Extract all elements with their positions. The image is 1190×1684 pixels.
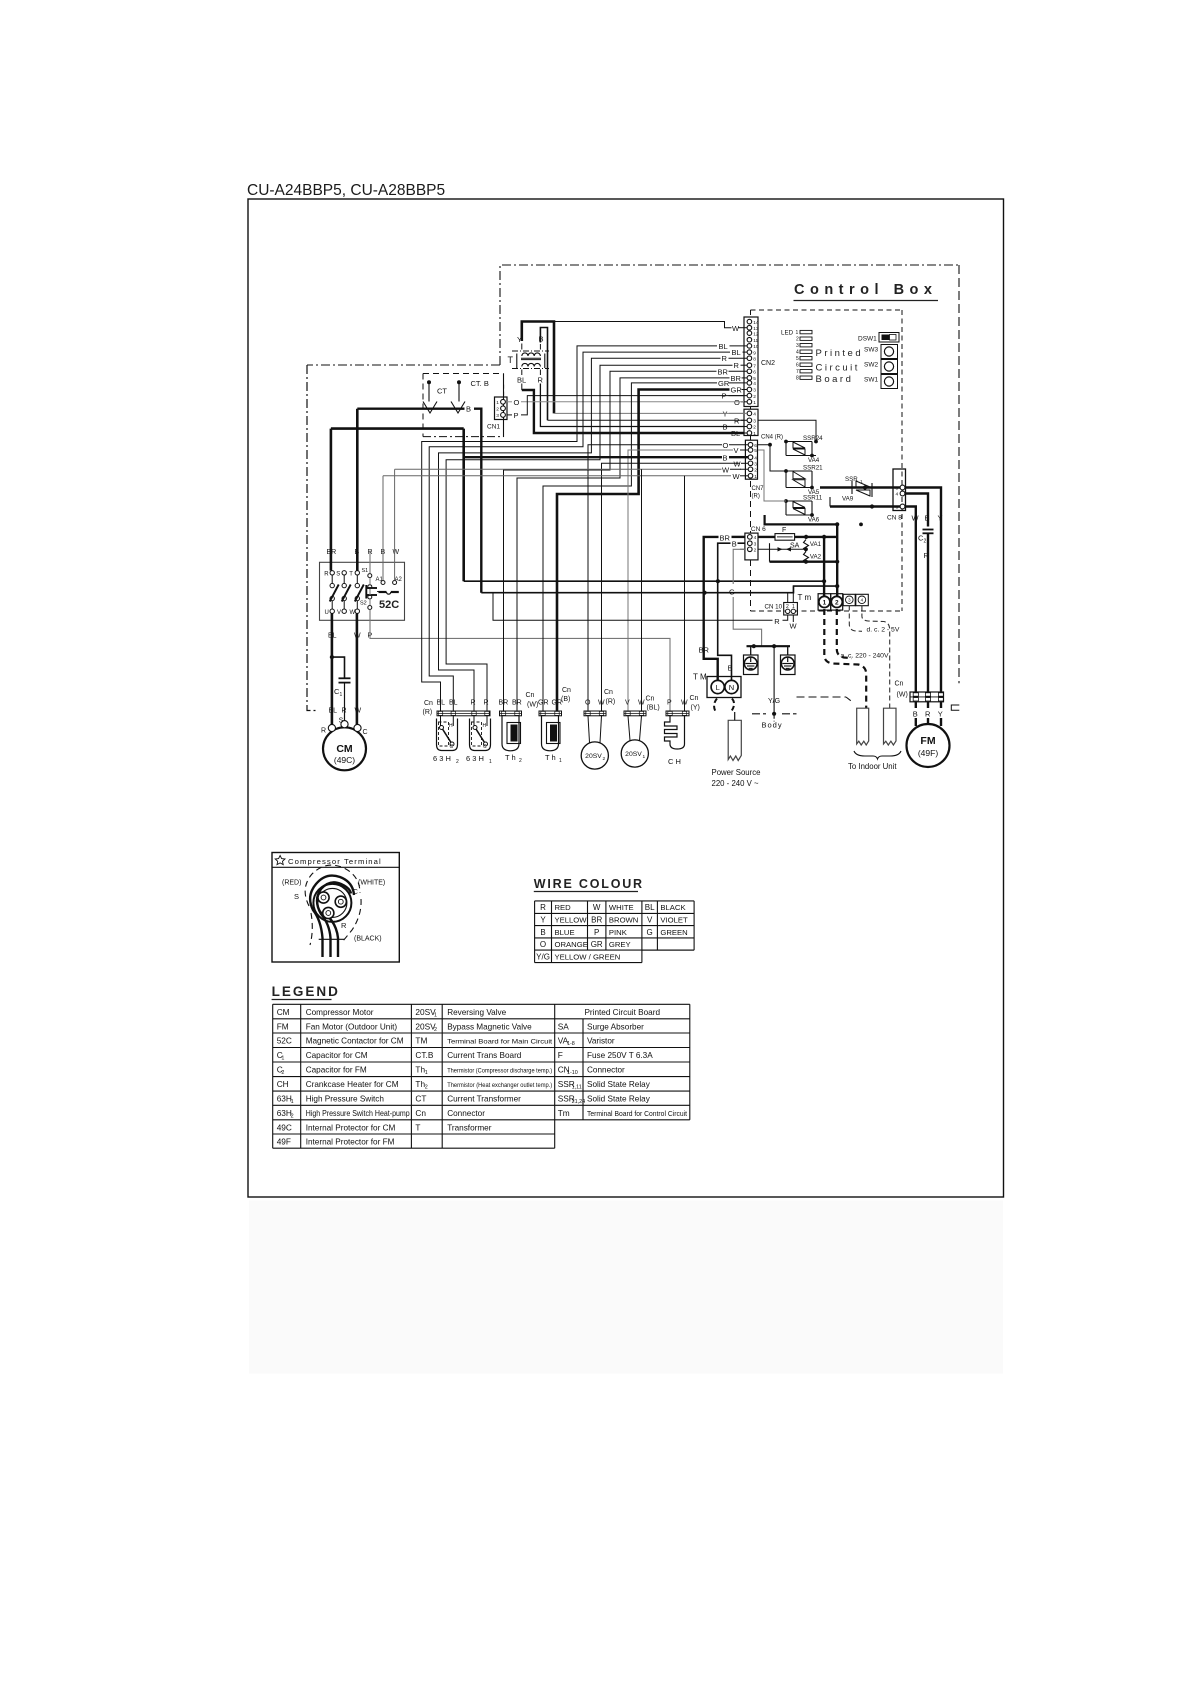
svg-text:4: 4 [754,455,757,461]
solid state relay SSR11 [786,500,812,502]
svg-text:R: R [342,708,347,715]
wire G from CN6 pin2 to earth bus [733,549,745,584]
svg-text:GREEN: GREEN [660,928,687,937]
svg-text:CT: CT [437,387,447,396]
svg-text:CU-A24BBP5, CU-A28BBP5: CU-A24BBP5, CU-A28BBP5 [247,182,445,199]
svg-text:BL: BL [437,700,446,707]
svg-text:F: F [558,1050,563,1060]
svg-text:(49F): (49F) [918,748,938,758]
wire L1 to Tm1 junction [464,580,824,582]
wire BR bold horizontal [331,427,464,430]
svg-text:10: 10 [753,344,759,350]
svg-text:Thermistor (Heat exchanger out: Thermistor (Heat exchanger outlet temp.) [447,1082,552,1089]
svg-text:L: L [716,683,720,692]
svg-text:VA4: VA4 [808,457,820,464]
wire B bold into 52C pole T [356,409,359,571]
wires into CN10 from power lines [787,593,789,603]
connector bar Th2 [500,711,522,716]
svg-text:Y: Y [938,514,943,523]
svg-text:BL: BL [449,700,458,707]
svg-text:(W): (W) [897,692,908,699]
svg-text:(R): (R) [606,699,616,706]
earth ground symbol 1 [750,646,752,655]
svg-text:(RED): (RED) [282,880,301,887]
wire B dashed above CN1 [503,385,505,397]
svg-text:3: 3 [754,462,757,468]
svg-text:2: 2 [291,1113,294,1119]
svg-text:(R): (R) [752,494,760,500]
svg-text:CN 8: CN 8 [887,515,902,522]
earth ground symbol 2 [787,646,789,655]
svg-text:SSR24: SSR24 [803,435,823,442]
svg-text:W: W [790,622,798,631]
svg-text:21,24: 21,24 [572,1099,586,1105]
wire CN7 pin6 to SSR21 [758,445,786,471]
svg-text:SW1: SW1 [864,377,878,384]
svg-text:P: P [514,411,519,420]
svg-text:d. c. 2 - 5V: d. c. 2 - 5V [867,627,900,634]
connector bar 20SV1 [624,711,646,716]
svg-text:Internal Protector for CM: Internal Protector for CM [306,1123,396,1132]
connector Cn(R) bar 63H [437,711,490,716]
svg-text:T M: T M [693,673,707,682]
svg-text:2: 2 [603,756,606,762]
svg-text:CT. B: CT. B [471,379,489,388]
wire BL bold 52C to CM [331,613,334,725]
svg-text:Y: Y [517,335,522,344]
svg-text:W: W [681,700,688,707]
wires CN8 to W B Y columns [905,488,941,693]
svg-text:W: W [732,324,740,333]
svg-text:14: 14 [753,320,759,326]
svg-text:BLACK: BLACK [660,903,686,912]
svg-text:GR: GR [591,940,603,949]
svg-text:63H: 63H [277,1094,292,1104]
svg-text:4: 4 [753,412,756,418]
svg-text:52C: 52C [277,1036,292,1046]
brace under indoor cables [854,751,901,759]
svg-text:SA: SA [790,543,800,550]
svg-text:VIOLET: VIOLET [660,916,688,925]
current trans board CT.B dashed box [423,373,504,375]
wire BR bold vertical to power line L1 [462,429,465,582]
svg-text:Bypass Magnetic Valve: Bypass Magnetic Valve [447,1022,532,1031]
inset title with star [275,856,285,865]
svg-text:W: W [393,549,400,556]
svg-text:SSR: SSR [845,476,858,483]
legend table [273,1003,690,1005]
svg-text:VA6: VA6 [808,517,820,524]
wire O grey CN1 to CN2 [507,401,512,403]
svg-text:Internal Protector for FM: Internal Protector for FM [306,1138,395,1147]
svg-text:Y: Y [938,710,943,719]
connector CN8 [893,469,906,511]
connector CN2 (14-pin) [744,317,758,407]
svg-text:(Y): (Y) [691,705,700,712]
svg-text:B: B [728,664,733,673]
svg-text:CN1: CN1 [487,424,500,431]
solid state relay SSR24 [786,441,812,443]
svg-text:FM: FM [277,1021,289,1031]
wire d.c. dashed from Tm4 [862,606,890,709]
svg-text:CH: CH [277,1079,289,1089]
svg-text:Cn: Cn [895,681,904,688]
svg-text:H: H [483,723,487,729]
svg-text:CM: CM [336,743,353,755]
svg-text:1: 1 [291,1099,294,1105]
svg-text:49C: 49C [277,1122,292,1132]
svg-text:O: O [723,441,729,450]
indoor unit cable 1 [857,708,869,745]
svg-text:Solid State Relay: Solid State Relay [587,1095,651,1104]
svg-text:C: C [483,744,487,750]
svg-text:Fuse 250V T 6.3A: Fuse 250V T 6.3A [587,1051,653,1060]
svg-text:VA9: VA9 [842,496,854,503]
svg-text:SSR21: SSR21 [803,465,823,472]
svg-text:Cn: Cn [526,692,535,699]
svg-text:Reversing Valve: Reversing Valve [447,1008,506,1017]
svg-text:2: 2 [281,1070,284,1076]
thermistor Th2 [502,716,519,751]
svg-text:4: 4 [753,381,756,387]
svg-text:Varistor: Varistor [587,1037,615,1046]
svg-text:PINK: PINK [609,928,628,937]
svg-text:Fan Motor (Outdoor Unit): Fan Motor (Outdoor Unit) [306,1022,398,1031]
svg-text:Terminal Board for Main Circui: Terminal Board for Main Circuit [447,1039,552,1046]
dashed wire from body area to indoor [797,696,847,698]
wire P CN1 to CN2 [507,414,512,416]
svg-text:Compressor Terminal: Compressor Terminal [288,857,382,866]
wire W to 20SV1 right lead [641,469,643,711]
connector CN4 (R) 4-pin [744,409,758,435]
wire V CN7 to 20SV1 [628,450,733,711]
thermistor Th1 [542,716,559,751]
svg-text:2: 2 [434,1027,437,1033]
svg-text:4: 4 [796,350,799,356]
svg-text:R: R [324,572,329,578]
svg-text:20SV: 20SV [625,751,642,758]
svg-text:C: C [363,729,368,736]
svg-text:Thermistor (Compressor dischar: Thermistor (Compressor discharge temp.) [447,1068,552,1075]
svg-text:BR: BR [718,367,729,376]
svg-text:BL: BL [719,342,728,351]
svg-text:2: 2 [835,600,839,607]
svg-text:B: B [466,404,471,413]
high pressure switch 63H1 [470,719,491,751]
svg-text:(B): (B) [561,696,570,703]
svg-text:Cn: Cn [690,695,699,702]
svg-text:CN 6: CN 6 [751,526,766,533]
CN2 wire W to transformer loop [739,327,748,329]
wire R grey through 52C aux pole [369,551,371,574]
svg-text:Magnetic Contactor for CM: Magnetic Contactor for CM [306,1037,404,1046]
svg-text:SSR11: SSR11 [803,495,823,502]
svg-text:R: R [538,376,544,385]
solid state relay SSR1 [820,486,852,488]
svg-text:1: 1 [340,692,343,698]
svg-text:11: 11 [753,338,758,344]
svg-text:CN 10: CN 10 [765,604,783,611]
svg-text:B: B [540,928,545,937]
svg-text:B: B [925,514,930,523]
svg-text:13: 13 [753,326,759,332]
svg-text:2: 2 [425,1085,428,1091]
svg-text:(R): (R) [423,709,433,716]
solid state relay SSR21 [786,470,812,472]
svg-text:6: 6 [796,363,799,369]
wire W bold 52C to CM [356,613,359,725]
svg-text:BR: BR [699,646,710,655]
svg-text:1: 1 [434,1012,437,1018]
wire BR CN2 staircase to bottom component [504,371,717,711]
svg-text:2: 2 [753,394,756,400]
svg-text:S: S [339,718,344,725]
svg-text:Tm: Tm [558,1108,570,1118]
current transformer CT symbol [427,380,431,384]
svg-text:Cn: Cn [604,689,613,696]
wire GR CN2 staircase to bottom component [557,390,730,712]
svg-text:1: 1 [496,400,499,406]
svg-text:6: 6 [896,505,899,511]
svg-text:ORANGE: ORANGE [555,940,588,949]
svg-text:BL: BL [732,348,741,357]
svg-text:6: 6 [754,443,757,449]
wire BL bold from T to CN4 pin1 [521,384,523,391]
terminal wire spiral leads [310,876,354,957]
svg-text:BL: BL [517,376,526,385]
svg-text:R: R [471,700,476,707]
svg-text:1: 1 [559,758,562,764]
svg-text:1: 1 [754,474,757,480]
svg-text:G: G [647,928,653,937]
svg-text:Capacitor for FM: Capacitor for FM [306,1066,367,1075]
svg-text:S: S [294,892,299,901]
magnetic contactor 52C box [320,562,405,620]
svg-text:BR: BR [731,374,742,383]
connector CN1 3-pin [495,397,508,420]
svg-text:GR: GR [731,386,743,395]
svg-text:Printed Circuit Board: Printed Circuit Board [584,1008,660,1017]
connector bar Th1 [539,711,562,716]
svg-text:B: B [913,710,918,719]
body earth wire [773,646,775,712]
svg-text:To Indoor Unit: To Indoor Unit [848,762,897,771]
svg-text:6 3 H: 6 3 H [466,754,484,763]
varistor VA1 [804,540,809,552]
svg-text:Crankcase Heater for CM: Crankcase Heater for CM [306,1080,399,1089]
svg-text:BR: BR [591,916,602,925]
svg-text:1: 1 [643,754,646,760]
connector bar CH [666,711,689,716]
svg-text:8: 8 [796,376,799,382]
svg-text:Body: Body [762,721,783,730]
svg-text:W: W [638,700,645,707]
svg-text:V: V [625,700,630,707]
wire a.c. dashed bold from Tm2 [837,609,852,658]
svg-text:Board: Board [816,374,854,385]
Control Box boundary (dash-dot) [500,265,959,365]
bold bus from SSR11 bottom [765,515,838,524]
svg-text:U: U [325,610,329,616]
svg-text:R: R [341,921,347,930]
svg-text:1,11: 1,11 [572,1085,582,1091]
svg-text:Cn: Cn [415,1108,426,1118]
capacitor C2 [923,529,934,531]
svg-text:Transformer: Transformer [447,1123,492,1132]
svg-text:CN7: CN7 [752,486,765,492]
svg-text:2: 2 [519,758,522,764]
svg-text:5: 5 [796,356,799,362]
svg-text:B: B [732,539,737,548]
wire Y from T loop to CN4 pin4 [554,412,744,414]
svg-text:Current Trans Board: Current Trans Board [447,1051,522,1060]
wire colour table grid [535,900,695,902]
svg-text:GR: GR [718,379,730,388]
svg-text:7: 7 [753,363,756,369]
svg-text:S2: S2 [360,601,367,607]
svg-text:2: 2 [754,468,757,474]
svg-text:1: 1 [753,431,756,437]
crankcase heater CH [665,716,685,749]
svg-text:5: 5 [754,448,757,454]
FM leads [915,702,917,708]
svg-text:4: 4 [754,535,757,541]
svg-text:2: 2 [754,548,757,554]
power source leads dashed [714,699,717,712]
wires B W to coil from above [382,476,384,581]
svg-text:WIRE COLOUR: WIRE COLOUR [534,877,644,891]
grey feeder to CH-W junction [641,468,643,470]
svg-text:T: T [415,1122,420,1132]
svg-text:YELLOW / GREEN: YELLOW / GREEN [555,952,621,961]
svg-text:(BL): (BL) [647,705,660,712]
svg-text:R: R [540,903,546,912]
svg-text:(W): (W) [527,702,538,709]
svg-text:T: T [349,572,353,578]
svg-text:GR: GR [538,700,549,707]
connector CN7 (R) 6-pin [745,440,757,479]
svg-text:T h: T h [545,753,556,762]
svg-text:O: O [540,940,546,949]
svg-text:CN2: CN2 [761,360,775,367]
svg-text:Cn: Cn [562,687,571,694]
svg-text:P: P [667,700,672,707]
svg-text:T h: T h [505,753,516,762]
svg-text:LEGEND: LEGEND [272,984,340,999]
wire SSR24 bottom to bus [812,455,816,457]
svg-text:SA: SA [558,1021,570,1031]
svg-text:W: W [733,472,741,481]
svg-text:Cn: Cn [424,700,433,707]
wire R CN2 staircase to bottom component [446,365,732,711]
bold lower wire to CN8 pin6 [829,497,831,507]
svg-text:8: 8 [753,356,756,362]
svg-text:CT: CT [415,1094,426,1104]
wire W CN7 long to CH and coil [383,475,731,477]
svg-text:R: R [734,361,740,370]
52C pole S [342,571,346,575]
svg-text:S1: S1 [362,568,369,574]
svg-text:O: O [514,398,520,407]
svg-text:1: 1 [489,759,492,765]
svg-text:BL: BL [329,708,338,715]
bypass valve 20SV1 [628,716,630,741]
svg-text:V: V [647,916,653,925]
svg-text:Printed: Printed [816,348,864,359]
svg-text:W: W [355,708,362,715]
svg-text:2: 2 [753,425,756,431]
svg-text:(49C): (49C) [334,755,355,765]
svg-text:C: C [450,744,454,750]
svg-text:V: V [734,446,739,455]
svg-text:7: 7 [796,369,799,375]
svg-text:Y/G: Y/G [768,698,780,705]
wire W to CH right lead [684,476,686,711]
svg-text:LED: LED [781,330,794,337]
svg-text:BL: BL [645,903,655,912]
svg-text:O: O [585,700,591,707]
svg-text:GREY: GREY [609,940,631,949]
svg-text:3: 3 [754,541,757,547]
svg-text:Y: Y [540,916,546,925]
svg-text:SW3: SW3 [864,347,878,354]
CM terminals R S C [328,724,335,731]
svg-text:R: R [924,551,930,560]
svg-text:G: G [729,588,735,597]
wire a.c. dashed bold from Tm1 [824,609,866,708]
svg-text:52C: 52C [379,599,399,611]
svg-text:220 - 240 V ~: 220 - 240 V ~ [712,779,759,788]
power source cable [728,720,741,760]
svg-text:BR: BR [720,534,731,543]
wire L2 to Tm2 junction [481,586,837,593]
svg-text:1: 1 [860,479,863,484]
svg-text:R: R [925,710,931,719]
svg-text:T m: T m [798,593,812,602]
svg-text:Terminal Board for Control Cir: Terminal Board for Control Circuit [587,1109,687,1118]
svg-text:WHITE: WHITE [609,903,634,912]
svg-text:6: 6 [753,370,756,376]
transformer T [522,322,554,414]
svg-text:Cn: Cn [646,696,655,703]
wire B bold CN7 tee into BR vertical [464,456,722,458]
Printed Circuit Board dashed outline [751,309,903,311]
svg-text:BR: BR [499,700,509,707]
svg-text:2: 2 [456,759,459,765]
svg-text:YELLOW: YELLOW [555,916,588,925]
svg-text:S: S [336,572,340,578]
svg-text:F: F [782,527,786,534]
svg-text:20SV: 20SV [585,753,602,760]
svg-text:2: 2 [796,337,799,343]
svg-text:3: 3 [496,413,499,419]
svg-text:V: V [337,610,341,616]
svg-text:Compressor Motor: Compressor Motor [306,1008,374,1017]
terminal drawing circles [313,884,351,922]
svg-text:VA1: VA1 [810,541,822,548]
svg-text:63H: 63H [277,1108,292,1118]
svg-text:Current Transformer: Current Transformer [447,1095,521,1104]
svg-text:1-10: 1-10 [567,1070,578,1076]
compressor motor CM circle [323,727,366,770]
svg-text:High Pressure Switch: High Pressure Switch [306,1095,385,1104]
52C pole R [330,571,334,575]
svg-text:Control Box: Control Box [794,282,937,298]
svg-text:1: 1 [796,330,799,336]
svg-text:BROWN: BROWN [609,916,638,925]
varistor VA2 [804,552,809,564]
svg-text:VA2: VA2 [810,553,822,560]
